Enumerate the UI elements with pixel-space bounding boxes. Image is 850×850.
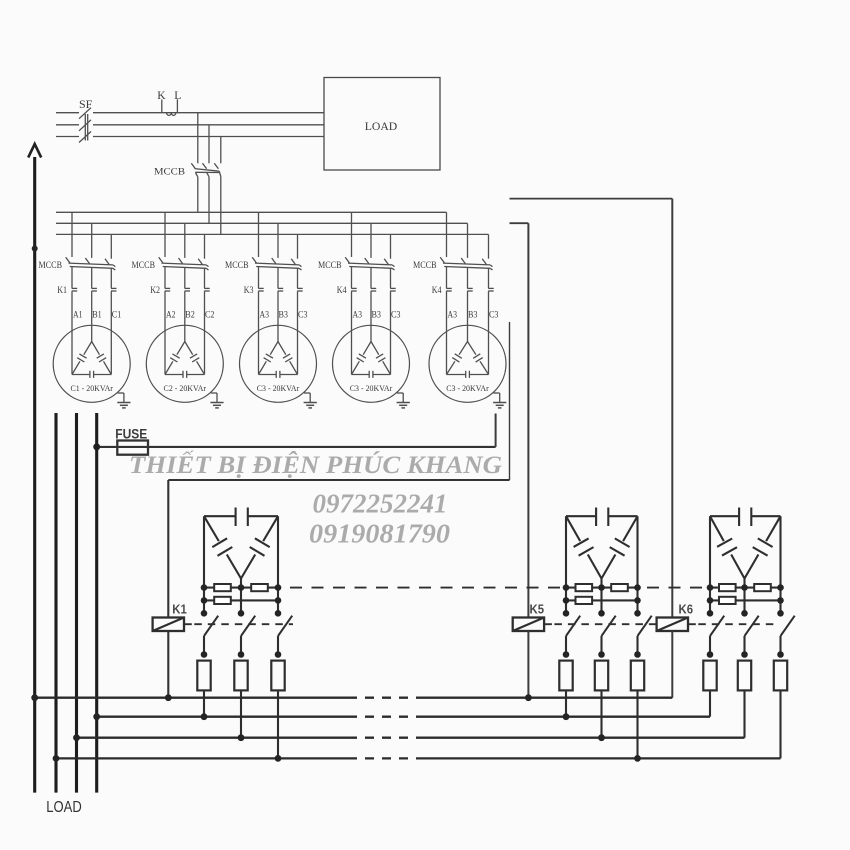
contactor coil K1 xyxy=(153,618,184,632)
wire phase C to load xyxy=(93,136,324,138)
svg-text:MCCB: MCCB xyxy=(225,260,249,270)
wire K1 A down xyxy=(203,690,205,716)
wire K5 B down xyxy=(600,690,602,737)
node row1 C K1 xyxy=(275,584,282,591)
resistor R2 K5 xyxy=(611,584,628,591)
disconnect switch SF xyxy=(79,108,91,143)
wire breaker to contact C branch 2 xyxy=(204,268,206,288)
node line1 feeder xyxy=(31,694,38,701)
contactor contacts K2 branch 2 xyxy=(165,288,210,291)
capacitor left arm K6 bank xyxy=(710,516,745,578)
node row1 A K5 xyxy=(563,584,570,591)
wire bus L3 to branch 4 breaker xyxy=(390,234,392,258)
node row3 C K6 xyxy=(777,610,784,617)
wire bus L3 to branch 3 breaker xyxy=(297,234,299,258)
label B1 branch 1 xyxy=(92,310,102,320)
watermark line 1 xyxy=(129,450,502,479)
node contact B K1 xyxy=(238,651,245,658)
svg-text:C1 - 20KVAr: C1 - 20KVAr xyxy=(70,383,113,393)
svg-text:A1: A1 xyxy=(73,310,83,320)
label value branch 3 xyxy=(257,383,300,393)
label C3 branch 3 xyxy=(298,310,308,320)
capacitor left arm K1 bank xyxy=(204,516,241,578)
svg-text:C1: C1 xyxy=(112,310,122,320)
label A3 branch 5 xyxy=(448,310,458,320)
label SF xyxy=(79,97,93,111)
label value branch 1 xyxy=(70,383,113,393)
wire breaker to contact B branch 5 xyxy=(467,268,469,289)
ground branch 3 xyxy=(304,393,317,408)
wire bus L2 to branch 3 breaker xyxy=(277,223,279,258)
bus L3 xyxy=(56,233,489,235)
svg-text:K5: K5 xyxy=(530,601,545,616)
breaker MCCB branch 4 xyxy=(345,257,394,270)
wire contact B to capacitor branch 5 xyxy=(467,291,469,341)
output line 2 xyxy=(97,716,710,718)
ground branch 5 xyxy=(493,393,506,408)
wire bus L2 to branch 1 breaker xyxy=(91,223,93,258)
resistor discharge C K1 xyxy=(271,661,284,691)
contactor contacts K3 branch 3 xyxy=(258,288,303,291)
node row3 B K1 xyxy=(238,610,245,617)
node row2 C K5 xyxy=(634,597,641,604)
output line 3 xyxy=(77,737,745,739)
contactor coil K6 xyxy=(657,618,688,632)
wire bus L2 to branch 2 breaker xyxy=(184,223,186,258)
breaker MCCB branch 3 xyxy=(252,257,301,270)
node contact A K1 xyxy=(201,651,208,658)
wire K1 B down xyxy=(240,690,242,737)
node row3 A K1 xyxy=(201,610,208,617)
capacitor right arm K5 bank xyxy=(602,516,638,578)
contact blade A K5 xyxy=(566,616,580,655)
svg-text:LOAD: LOAD xyxy=(365,119,398,133)
svg-text:THIẾT BỊ ĐIỆN PHÚC KHANG: THIẾT BỊ ĐIỆN PHÚC KHANG xyxy=(129,450,502,479)
load box xyxy=(324,78,440,171)
node K5 coil line1 xyxy=(525,694,532,701)
wire main MCCB to bus L3 xyxy=(220,177,222,235)
svg-text:B3: B3 xyxy=(279,310,289,320)
wire drop to K6 coil xyxy=(671,199,673,618)
ground branch 2 xyxy=(210,393,223,408)
svg-text:L: L xyxy=(174,90,181,102)
node row1 C K6 xyxy=(777,584,784,591)
wire contact A to capacitor branch 3 xyxy=(258,291,260,374)
ground branch 4 xyxy=(397,393,410,408)
resistor R2 K6 xyxy=(754,584,771,591)
node row3 A K5 xyxy=(563,610,570,617)
label value branch 5 xyxy=(446,383,489,393)
capacitor bank delta branch 1 xyxy=(53,325,130,402)
current transformer K L xyxy=(162,99,178,115)
wire contact B to capacitor branch 2 xyxy=(184,291,186,341)
svg-text:MCCB: MCCB xyxy=(132,260,156,270)
wire box right K5 xyxy=(636,516,638,587)
wire breaker to contact A branch 4 xyxy=(351,267,353,289)
wire drop to K1 coil xyxy=(167,480,169,618)
label K1 branch 1 xyxy=(57,285,67,295)
wire phase C segment before SF xyxy=(56,136,79,138)
label B3 branch 3 xyxy=(279,310,289,320)
label C1 branch 1 xyxy=(112,310,122,320)
wire contact C to capacitor branch 2 xyxy=(204,291,206,374)
wire bus L3 to branch 2 breaker xyxy=(204,234,206,258)
watermark phone 2 xyxy=(309,518,450,549)
svg-text:0919081790: 0919081790 xyxy=(309,518,450,549)
wire control riser xyxy=(509,322,511,480)
resistor R2 K1 xyxy=(251,584,268,591)
breaker MCCB branch 2 xyxy=(159,257,209,270)
label A1 branch 1 xyxy=(73,310,83,320)
dashed link K5 to K6 xyxy=(647,587,707,589)
wire feeder 4 down xyxy=(95,413,98,793)
wire feed K5 xyxy=(510,222,529,224)
node row1 B K5 xyxy=(598,584,605,591)
wire contact A to capacitor branch 4 xyxy=(351,291,353,374)
breaker MCCB main xyxy=(191,163,221,177)
wire breaker to contact B branch 1 xyxy=(91,268,93,289)
svg-text:K1: K1 xyxy=(57,285,67,295)
wire phase B to load xyxy=(93,124,324,126)
wire drop phase B to main MCCB xyxy=(208,125,210,164)
dashed control link K5 xyxy=(544,623,656,625)
capacitor right arm K1 bank xyxy=(241,516,278,578)
wire feeder 3 down xyxy=(75,413,78,793)
svg-text:MCCB: MCCB xyxy=(413,260,437,270)
wire col A stub K6 xyxy=(709,588,711,614)
node row1 B K1 xyxy=(238,584,245,591)
svg-text:B2: B2 xyxy=(185,310,195,320)
label B3 branch 4 xyxy=(372,310,382,320)
label L xyxy=(174,90,181,102)
wire contact C to capacitor branch 3 xyxy=(297,291,299,374)
wire phase A segment before SF xyxy=(56,112,79,114)
label MCCB branch 2 xyxy=(132,260,156,270)
wire row1 K1 xyxy=(204,587,278,589)
svg-text:C3 - 20KVAr: C3 - 20KVAr xyxy=(350,383,393,393)
wire bus L1 to branch 5 breaker xyxy=(446,212,448,257)
wire K6 C down xyxy=(779,690,781,758)
wire col A stub K1 xyxy=(203,588,205,614)
contact blade C K6 xyxy=(781,616,795,655)
node row3 C K1 xyxy=(275,610,282,617)
contactor coil K5 xyxy=(513,618,544,632)
wire drop phase C to main MCCB xyxy=(220,137,222,164)
resistor discharge A K5 xyxy=(559,661,572,691)
label MCCB branch 1 xyxy=(39,260,63,270)
resistor discharge C K5 xyxy=(631,661,644,691)
svg-text:A3: A3 xyxy=(353,310,363,320)
resistor discharge A K6 xyxy=(703,661,716,691)
node line3 feeder xyxy=(73,734,80,741)
wire star point K6 xyxy=(743,579,745,614)
wire feeder 1 down xyxy=(33,413,36,793)
wire main MCCB to bus L2 xyxy=(208,177,210,224)
wire bus L2 to branch 4 breaker xyxy=(370,223,372,258)
watermark phone 1 xyxy=(313,489,448,519)
capacitor bank delta branch 3 xyxy=(240,325,317,402)
label MCCB branch 4 xyxy=(318,260,342,270)
svg-text:A2: A2 xyxy=(166,310,176,320)
wire K6 B down xyxy=(743,690,745,737)
output line 4 xyxy=(56,757,781,759)
wire phase A to load xyxy=(93,112,324,114)
wire feeder 2 down xyxy=(54,413,57,793)
node row2 C K6 xyxy=(777,597,784,604)
wire contact B to capacitor branch 3 xyxy=(277,291,279,341)
contactor contacts K1 branch 1 xyxy=(72,288,117,291)
contact blade B K6 xyxy=(745,616,759,655)
wire star point K5 xyxy=(600,579,602,614)
svg-text:MCCB: MCCB xyxy=(39,260,63,270)
wire box right K6 xyxy=(779,516,781,587)
node row1 A K6 xyxy=(707,584,714,591)
wire K1 C down xyxy=(277,690,279,758)
wire bus L3 to branch 1 breaker xyxy=(110,234,112,258)
label A3 branch 3 xyxy=(260,310,270,320)
node row2 A K1 xyxy=(201,597,208,604)
dashed control link K6 xyxy=(688,623,777,625)
arrow feeder incoming supply xyxy=(28,144,41,413)
svg-text:C3: C3 xyxy=(489,310,499,320)
resistor R3 K5 xyxy=(576,597,593,604)
wire breaker to contact A branch 1 xyxy=(71,267,73,289)
label K2 branch 2 xyxy=(150,285,160,295)
resistor R3 K1 xyxy=(214,597,231,604)
wire col C stub K5 xyxy=(636,588,638,614)
wire box right K1 xyxy=(277,516,279,587)
ground branch 1 xyxy=(117,393,130,408)
node contact B K6 xyxy=(741,651,748,658)
svg-text:K6: K6 xyxy=(679,601,694,616)
wire contact A to capacitor branch 5 xyxy=(446,291,448,374)
wire contact C to capacitor branch 5 xyxy=(488,291,490,374)
wire bus L1 to branch 4 breaker xyxy=(351,212,353,257)
label LOAD top xyxy=(365,119,398,133)
capacitor top K6 bank xyxy=(710,508,781,527)
label MCCB branch 5 xyxy=(413,260,437,270)
node K1A line2 xyxy=(201,713,208,720)
svg-text:C3: C3 xyxy=(391,310,401,320)
node row1 C K5 xyxy=(634,584,641,591)
wire breaker to contact C branch 4 xyxy=(390,268,392,288)
node K1C line4 xyxy=(275,755,282,762)
node row2 C K1 xyxy=(275,597,282,604)
contact blade A K6 xyxy=(710,616,724,655)
node line4 feeder xyxy=(53,755,60,762)
capacitor top K1 bank xyxy=(204,508,278,527)
wire feed upper right xyxy=(510,198,673,200)
wire K6 coil to line1 xyxy=(671,631,673,698)
wire row1 K5 xyxy=(566,587,638,589)
wire breaker to contact A branch 2 xyxy=(164,267,166,289)
node K1 coil line1 xyxy=(165,694,172,701)
bus L2 xyxy=(56,222,468,224)
wire K5 A down xyxy=(565,690,567,716)
dashed control link K1 xyxy=(184,623,293,625)
capacitor bank delta branch 2 xyxy=(146,325,223,402)
label LOAD bottom xyxy=(46,799,82,816)
wire contact C to capacitor branch 4 xyxy=(390,291,392,374)
breaker MCCB branch 1 xyxy=(66,257,116,270)
svg-text:LOAD: LOAD xyxy=(46,799,82,816)
bus L1 xyxy=(56,211,447,213)
label K4 branch 5 xyxy=(432,285,442,295)
label K4 branch 4 xyxy=(337,285,347,295)
wire breaker to contact C branch 3 xyxy=(297,268,299,288)
fuse FUSE xyxy=(117,441,148,455)
label FUSE xyxy=(115,425,147,441)
node row3 B K5 xyxy=(598,610,605,617)
wire contact C to capacitor branch 1 xyxy=(110,291,112,374)
wire K5 coil to line1 xyxy=(527,631,529,698)
resistor discharge B K5 xyxy=(595,661,608,691)
node K5C line4 xyxy=(634,755,641,762)
node line2 feeder xyxy=(93,713,100,720)
wire bus L3 to branch 5 breaker xyxy=(488,234,490,258)
wire breaker to contact B branch 2 xyxy=(184,268,186,289)
capacitor left arm K5 bank xyxy=(566,516,602,578)
wire drop phase A to main MCCB xyxy=(197,113,199,164)
wire K6 A down xyxy=(709,690,711,716)
wire star point K1 xyxy=(240,579,242,614)
wire breaker to contact B branch 4 xyxy=(370,268,372,289)
capacitor bank delta branch 4 xyxy=(333,325,410,402)
node row2 A K5 xyxy=(563,597,570,604)
node on feeder line xyxy=(32,246,38,252)
svg-text:A3: A3 xyxy=(448,310,458,320)
node K5A line2 xyxy=(563,713,570,720)
svg-text:MCCB: MCCB xyxy=(318,260,342,270)
node row3 A K6 xyxy=(707,610,714,617)
wire main MCCB to bus L1 xyxy=(197,177,199,213)
svg-text:C2 - 20KVAr: C2 - 20KVAr xyxy=(164,383,207,393)
wire bus L1 to branch 1 breaker xyxy=(71,212,73,257)
svg-text:K: K xyxy=(157,90,166,102)
svg-text:C2: C2 xyxy=(205,310,215,320)
label B3 branch 5 xyxy=(468,310,478,320)
wire row2 K6 xyxy=(710,599,781,601)
label value branch 2 xyxy=(164,383,207,393)
label K5 xyxy=(530,601,545,616)
node contact C K6 xyxy=(777,651,784,658)
capacitor top K5 bank xyxy=(566,508,638,527)
wire breaker to contact B branch 3 xyxy=(277,268,279,289)
wire contact B to capacitor branch 1 xyxy=(91,291,93,341)
wire bus L2 to branch 5 breaker xyxy=(467,223,469,258)
label K3 branch 3 xyxy=(244,285,254,295)
wire col A stub K5 xyxy=(565,588,567,614)
resistor discharge A K1 xyxy=(197,661,210,691)
wire contact A to capacitor branch 1 xyxy=(71,291,73,374)
node contact A K5 xyxy=(563,651,570,658)
label B2 branch 2 xyxy=(185,310,195,320)
svg-text:SF: SF xyxy=(79,97,93,111)
resistor R3 K6 xyxy=(719,597,736,604)
wire fuse xyxy=(97,446,496,448)
node contact B K5 xyxy=(598,651,605,658)
svg-text:B3: B3 xyxy=(468,310,478,320)
label K1 xyxy=(172,601,187,616)
label MCCB branch 3 xyxy=(225,260,249,270)
svg-text:B1: B1 xyxy=(92,310,102,320)
label value branch 4 xyxy=(350,383,393,393)
wire drop to K5 coil xyxy=(527,223,529,617)
svg-text:A3: A3 xyxy=(260,310,270,320)
breaker MCCB branch 5 xyxy=(440,257,492,270)
wire col C stub K6 xyxy=(779,588,781,614)
output line 1 xyxy=(35,697,673,699)
svg-text:FUSE: FUSE xyxy=(115,425,147,441)
label A3 branch 4 xyxy=(353,310,363,320)
wire K5 C down xyxy=(636,690,638,758)
node row1 B K6 xyxy=(741,584,748,591)
svg-text:K4: K4 xyxy=(337,285,347,295)
node row3 C K5 xyxy=(634,610,641,617)
label MCCB main xyxy=(154,168,185,178)
node K1B line3 xyxy=(238,734,245,741)
resistor discharge B K6 xyxy=(738,661,751,691)
node K5B line3 xyxy=(598,734,605,741)
label C3 branch 4 xyxy=(391,310,401,320)
capacitor bank delta branch 5 xyxy=(429,325,506,402)
wire contact A to capacitor branch 2 xyxy=(164,291,166,374)
svg-text:B3: B3 xyxy=(372,310,382,320)
node row1 A K1 xyxy=(201,584,208,591)
node contact C K5 xyxy=(634,651,641,658)
label A2 branch 2 xyxy=(166,310,176,320)
wire breaker to contact A branch 3 xyxy=(258,267,260,289)
contact blade B K1 xyxy=(241,616,255,655)
wire box left K1 xyxy=(203,516,205,587)
resistor R1 K1 xyxy=(214,584,231,591)
wire K1 coil to line1 xyxy=(167,631,169,698)
contactor contacts K4 branch 4 xyxy=(351,288,396,291)
wire fuse riser xyxy=(495,414,497,447)
svg-text:0972252241: 0972252241 xyxy=(313,489,448,519)
node fuse tap xyxy=(93,443,100,450)
contactor contacts K4 branch 5 xyxy=(446,288,494,291)
node contact A K6 xyxy=(707,651,714,658)
label C2 branch 2 xyxy=(205,310,215,320)
dashed link K1 to K5 xyxy=(290,587,563,589)
label K6 xyxy=(679,601,694,616)
svg-text:K3: K3 xyxy=(244,285,254,295)
resistor R1 K5 xyxy=(576,584,593,591)
wire breaker to contact A branch 5 xyxy=(446,267,448,289)
contact blade B K5 xyxy=(602,616,616,655)
wire box left K5 xyxy=(565,516,567,587)
wire phase B segment before SF xyxy=(56,124,79,126)
contact blade C K5 xyxy=(638,616,652,655)
resistor discharge C K6 xyxy=(774,661,787,691)
node row3 B K6 xyxy=(741,610,748,617)
node contact C K1 xyxy=(275,651,282,658)
contact blade C K1 xyxy=(278,616,292,655)
contact blade A K1 xyxy=(204,616,218,655)
resistor R1 K6 xyxy=(719,584,736,591)
wire breaker to contact C branch 5 xyxy=(488,268,490,288)
resistor discharge B K1 xyxy=(234,661,247,691)
wire box left K6 xyxy=(709,516,711,587)
wire breaker to contact C branch 1 xyxy=(110,268,112,288)
svg-text:MCCB: MCCB xyxy=(154,168,185,178)
wire col C stub K1 xyxy=(277,588,279,614)
label C3 branch 5 xyxy=(489,310,499,320)
wire row2 K5 xyxy=(566,599,638,601)
label K xyxy=(157,90,166,102)
svg-text:K1: K1 xyxy=(172,601,187,616)
